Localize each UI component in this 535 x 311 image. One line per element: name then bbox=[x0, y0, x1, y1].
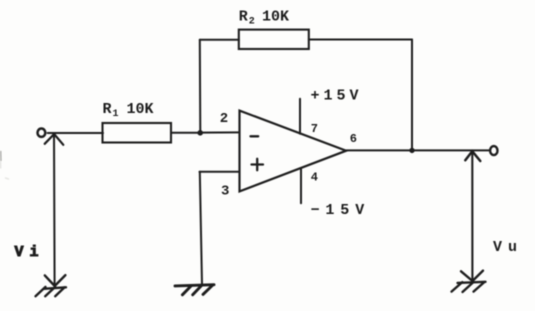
wire feedback up from node A bbox=[199, 40, 202, 133]
svg-text:Vu: Vu bbox=[493, 239, 523, 256]
ground (pin 3) bbox=[175, 285, 214, 295]
op-amp U1 triangle bbox=[240, 111, 347, 192]
svg-text:3: 3 bbox=[221, 184, 229, 200]
node arrow at output junction bbox=[465, 151, 480, 161]
svg-text:10K: 10K bbox=[127, 101, 154, 118]
svg-text:6: 6 bbox=[350, 132, 357, 146]
wire feedback top left bbox=[200, 39, 239, 41]
svg-text:2: 2 bbox=[220, 111, 228, 127]
svg-text:7: 7 bbox=[311, 122, 318, 136]
svg-text:4: 4 bbox=[311, 171, 318, 185]
svg-text:R: R bbox=[239, 9, 248, 26]
wire output junction down to ground bbox=[471, 150, 473, 281]
resistor R2 bbox=[239, 30, 309, 49]
ground (input) bbox=[36, 275, 67, 296]
svg-text:R: R bbox=[103, 101, 112, 118]
node A junction dot bbox=[197, 130, 203, 136]
svg-text:Vi: Vi bbox=[15, 244, 45, 261]
svg-text:+15V: +15V bbox=[311, 88, 363, 105]
wire input terminal to R1 bbox=[48, 132, 103, 134]
resistor R1 bbox=[103, 123, 172, 143]
svg-text:−15V: −15V bbox=[311, 202, 371, 219]
node arrow at input junction bbox=[45, 134, 64, 145]
wire input junction down to ground bbox=[53, 134, 56, 286]
wire feedback top right bbox=[309, 39, 412, 41]
scan artifact left edge bbox=[0, 152, 2, 161]
svg-text:2: 2 bbox=[249, 17, 255, 28]
svg-text:10K: 10K bbox=[262, 9, 289, 26]
wire R1 to node A bbox=[171, 132, 200, 134]
minus sign (inverting input) bbox=[251, 135, 259, 137]
label R1 10K bbox=[103, 101, 154, 120]
+15V supply stub pin 7 bbox=[299, 99, 301, 134]
wire op-amp pin 3 left bbox=[200, 171, 240, 173]
svg-text:1: 1 bbox=[113, 109, 119, 120]
output node junction dot bbox=[409, 148, 414, 153]
-15V supply stub pin 4 bbox=[300, 168, 302, 203]
wire node A to op-amp pin 2 bbox=[200, 131, 240, 133]
output terminal circle (Vu) bbox=[490, 146, 497, 155]
label R2 10K bbox=[239, 9, 289, 28]
ground (output) bbox=[452, 271, 486, 292]
wire feedback down to output node bbox=[411, 40, 413, 151]
input terminal circle (Vi) bbox=[38, 129, 46, 137]
plus sign (non-inverting input) bbox=[252, 159, 264, 170]
wire op-amp output to terminal bbox=[346, 149, 490, 151]
wire pin 3 down to ground bbox=[200, 172, 202, 284]
